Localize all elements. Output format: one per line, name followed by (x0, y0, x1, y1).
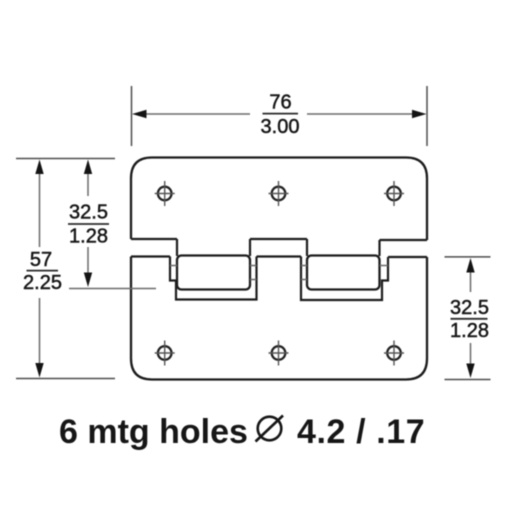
socket 1 left wall and bottom (170, 257, 257, 300)
svg-text:1.28: 1.28 (69, 225, 108, 247)
mounting hole H2 (269, 181, 289, 206)
right 32.5 fraction bar (451, 318, 488, 320)
left 32.5 arrowhead up (84, 160, 92, 175)
57 dimension arrowhead down (35, 363, 43, 378)
left 32.5 arrowhead down (84, 273, 92, 288)
bottom leaf outline (131, 257, 427, 380)
top dimension fraction bar (263, 113, 299, 115)
svg-text:4.2 / .17: 4.2 / .17 (297, 413, 425, 451)
diameter symbol (256, 416, 284, 442)
right 32.5 arrowhead down (466, 364, 474, 379)
right 32.5 arrowhead up (466, 258, 474, 273)
knuckle barrel 1 (177, 256, 250, 290)
pin seam dashes (170, 266, 388, 280)
mounting hole H4 (155, 341, 175, 366)
left 32.5 fraction bar (68, 223, 109, 225)
mounting hole H1 (155, 181, 175, 206)
mounting hole H5 (269, 341, 289, 366)
top dimension arrowhead right (412, 110, 427, 118)
svg-text:3.00: 3.00 (261, 116, 300, 138)
top dimension arrowhead left (132, 110, 147, 118)
knuckle barrel 2 (307, 256, 380, 290)
top leaf knuckle step verticals (177, 239, 380, 256)
right 32.5 dimension line (470, 267, 472, 369)
svg-text:76: 76 (269, 92, 291, 114)
top width dimension extension lines (132, 86, 428, 146)
top leaf outline (131, 158, 427, 241)
57 fraction bar (27, 270, 59, 272)
left 32.5 dimension line (87, 169, 89, 278)
57 dimension arrowhead up (35, 160, 43, 175)
svg-text:57: 57 (30, 249, 52, 271)
bottom leaf middle tab top edge (257, 255, 302, 257)
left lower extension line (16, 378, 115, 380)
svg-text:2.25: 2.25 (23, 272, 62, 294)
57 dimension line (39, 169, 41, 369)
left upper extension line (16, 158, 115, 160)
bottom leaf top edge left segment (131, 255, 170, 257)
top width dimension line (141, 113, 417, 115)
pivot leader line (69, 288, 156, 290)
right lower extension line (445, 379, 491, 381)
top leaf bottom edge segments (131, 239, 427, 240)
socket 2 walls and bottom (301, 257, 388, 301)
svg-text:1.28: 1.28 (450, 320, 489, 342)
svg-text:6 mtg holes: 6 mtg holes (59, 413, 248, 451)
bottom leaf top edge right segment (388, 256, 427, 258)
right upper extension line (445, 256, 491, 258)
mounting hole H3 (384, 181, 404, 206)
svg-text:32.5: 32.5 (450, 297, 489, 319)
svg-text:32.5: 32.5 (69, 202, 108, 224)
mounting hole H6 (384, 341, 404, 366)
